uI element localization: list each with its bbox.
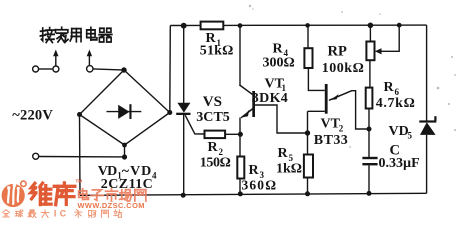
label R6 — [384, 80, 400, 97]
wire VS gate lead — [185, 115, 204, 134]
label C — [390, 142, 400, 158]
node junction wiper wire with top rail — [397, 23, 402, 28]
resistor R1 51k ohm — [201, 22, 224, 30]
label BT33 type of VT2 — [314, 133, 348, 148]
svg-text:TM: TM — [76, 179, 83, 184]
svg-text:3DK4: 3DK4 — [252, 91, 288, 106]
node junction VT1 base / R5 / VT2 b1 — [305, 130, 310, 135]
svg-text:~220V: ~220V — [12, 107, 53, 123]
svg-text:4.7kΩ: 4.7kΩ — [376, 96, 415, 111]
node bridge right corner — [167, 110, 172, 115]
wire RP to R6 — [369, 60, 371, 87]
svg-text:R: R — [278, 146, 289, 161]
label 3CT5 type of VS — [196, 110, 230, 125]
node junction R4 column with top rail — [305, 23, 310, 28]
wire R4 column from top rail — [307, 25, 309, 48]
watermark bottom slogan row — [3, 208, 122, 218]
wire R6 to capacitor node — [368, 109, 370, 158]
wire VS anode column — [183, 26, 185, 104]
unijunction transistor VT2 bar — [325, 84, 328, 114]
wire VT2 base-one down to R5 — [307, 111, 309, 154]
wire C to bottom rail — [368, 165, 370, 193]
label ~220V mains voltage — [12, 107, 53, 123]
resistor R3 360 ohm — [237, 157, 244, 179]
label R5 — [278, 146, 294, 163]
label VS — [203, 94, 222, 110]
node bridge bottom corner — [122, 143, 127, 148]
label 1k ohm value of R5 — [276, 161, 302, 176]
svg-text:WWW.DZSC.COM: WWW.DZSC.COM — [78, 201, 145, 210]
label 3DK4 type of VT1 — [252, 91, 288, 106]
watermark text WWW.DZSC.COM — [78, 201, 145, 210]
label R1 — [206, 31, 222, 48]
wire right edge column — [426, 25, 428, 193]
arrow marker above terminal B — [53, 50, 58, 67]
wire bottom negative rail — [80, 193, 427, 195]
node junction RP column with top rail — [368, 23, 374, 29]
capacitor C 0.33uF — [362, 157, 377, 166]
node junction VT1 emitter / R2 / R3 — [238, 132, 243, 137]
label Chinese title jie jia yong dian qi (connect household appliance) — [40, 27, 112, 42]
wire VS cathode to bottom rail — [183, 115, 185, 195]
svg-text:BT33: BT33 — [314, 133, 348, 148]
wire AC lower input to bridge bottom corner — [39, 145, 125, 157]
label 360 ohm value of R3 — [242, 178, 277, 193]
svg-text:300Ω: 300Ω — [263, 55, 295, 70]
scan noise specks (decorative) — [249, 5, 456, 148]
wire left drop from top rail to bridge + corner — [169, 26, 172, 113]
wire VT1 base to R5/VT2 node — [255, 105, 308, 133]
svg-text:R: R — [273, 41, 284, 56]
wire R5 to bottom rail — [307, 178, 309, 195]
node R3 on bottom rail — [238, 191, 243, 196]
node R5 on bottom rail — [305, 191, 310, 196]
svg-text:1kΩ: 1kΩ — [276, 161, 302, 176]
node bridge bottom corner to AC wire — [122, 154, 127, 159]
terminal circle appliance B — [53, 66, 59, 72]
wire VT1 emitter with arrow — [240, 109, 253, 157]
terminal circle appliance C — [87, 66, 93, 72]
label VD1~VD4 — [98, 164, 157, 181]
node C on bottom rail — [367, 191, 372, 196]
label R4 — [273, 41, 289, 58]
potentiometer RP 100k ohm — [366, 42, 374, 61]
svg-text:0.33µF: 0.33µF — [379, 156, 420, 171]
label VT1 — [265, 76, 287, 93]
label 0.33uF value of C — [379, 156, 420, 171]
node junction R6 / VT2 emitter / C — [367, 127, 372, 132]
wire terminal C to bridge top corner — [93, 69, 122, 70]
svg-text:51kΩ: 51kΩ — [200, 43, 234, 58]
svg-text:3CT5: 3CT5 — [196, 110, 230, 125]
label 51k ohm value of R1 — [200, 43, 234, 58]
bridge rectifier VD1~VD4 diamond — [80, 70, 170, 145]
label 100k ohm value of RP — [322, 61, 364, 76]
wire RP wiper with arrow from top rail — [375, 25, 399, 54]
wire RP column from top rail — [369, 25, 371, 41]
label 300 ohm value of R4 — [263, 55, 295, 70]
node bridge left corner — [77, 112, 82, 117]
svg-text:360Ω: 360Ω — [242, 178, 277, 193]
node bridge top corner — [121, 67, 126, 72]
label VD5 — [389, 124, 413, 141]
wire R3 to bottom rail — [239, 179, 241, 195]
label VT2 — [321, 117, 344, 134]
svg-text:VS: VS — [203, 94, 222, 110]
wire VT2 emitter with arrow to C node — [329, 91, 369, 129]
svg-text:C: C — [60, 208, 67, 218]
svg-text:R: R — [249, 163, 260, 178]
resistor R4 300 ohm — [304, 48, 312, 68]
watermark text weiku (big) — [31, 179, 82, 205]
node junction VT1 column with top rail — [238, 23, 243, 28]
resistor R6 4.7k ohm — [366, 88, 373, 109]
zener diode VD5 — [419, 116, 436, 135]
bridge internal diode symbol — [107, 104, 142, 119]
label 150 ohm value of R2 — [200, 155, 231, 170]
svg-text:100kΩ: 100kΩ — [322, 61, 364, 76]
wire between terminals A and B — [39, 68, 53, 70]
terminal circle AC input lower left — [33, 153, 39, 159]
svg-text:VT: VT — [321, 117, 341, 132]
svg-text:VD: VD — [389, 124, 409, 139]
svg-text:150Ω: 150Ω — [200, 155, 231, 170]
transistor VT1 base bar — [252, 91, 255, 117]
terminal circle appliance A — [33, 66, 39, 72]
label RP — [328, 43, 347, 59]
wire bridge left corner to bottom rail — [79, 115, 82, 196]
arrow marker above terminal C — [87, 50, 92, 66]
svg-text:R: R — [384, 80, 395, 95]
wire R2 to VT1 emitter node — [225, 133, 240, 135]
svg-text:R: R — [208, 140, 219, 155]
svg-text:5: 5 — [408, 131, 413, 141]
watermark logo circle — [2, 181, 27, 207]
svg-text:RP: RP — [328, 43, 347, 59]
resistor R5 1k ohm — [304, 155, 313, 178]
resistor R2 150 ohm — [205, 131, 226, 139]
node VS cathode on bottom rail — [181, 193, 186, 198]
wire VT1 collector column from top rail — [239, 26, 253, 95]
wire R4 to VT2 base-two — [308, 68, 324, 90]
wire top positive rail — [170, 24, 426, 26]
watermark text dianzishichangwang — [79, 189, 146, 202]
label 2CZ11C type of bridge diodes — [101, 177, 153, 192]
label R3 — [249, 163, 265, 180]
svg-text:I: I — [54, 208, 56, 218]
thyristor VS — [176, 103, 190, 115]
wire VT2 base-one to R5 node — [308, 110, 325, 112]
node junction of VS column with top rail — [181, 23, 187, 29]
label R2 — [208, 140, 224, 157]
label 4.7k ohm value of R6 — [376, 96, 415, 111]
